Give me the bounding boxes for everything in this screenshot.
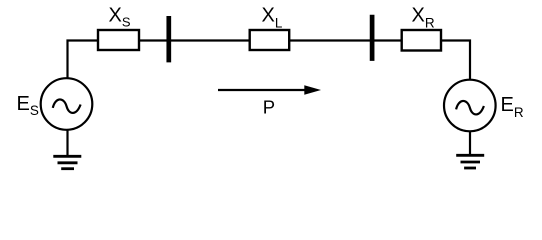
ground (E_S) bbox=[53, 156, 81, 168]
svg-text:P: P bbox=[263, 97, 275, 118]
wire from X_L right terminal across bus 2 to X_R left terminal bbox=[290, 39, 401, 41]
reactance X_S (box) bbox=[98, 30, 139, 50]
ground (E_R) bbox=[456, 155, 484, 168]
bus 1 (sending-end busbar) bbox=[166, 16, 171, 62]
AC source E_R (circle with sine) bbox=[444, 80, 496, 132]
reactance X_R (box) bbox=[402, 30, 441, 51]
wire from X_R right terminal to corner and down to E_R top bbox=[442, 41, 470, 80]
bus 2 (receiving-end busbar) bbox=[370, 15, 375, 61]
AC source E_S (circle with sine) bbox=[41, 78, 93, 130]
wire from X_S right terminal across bus 1 to X_L left terminal bbox=[140, 39, 249, 41]
reactance X_L (box) bbox=[250, 30, 290, 50]
arrow P (power flow) bbox=[218, 85, 321, 95]
wire from X_S left terminal to corner and down to E_S top bbox=[68, 41, 98, 79]
wire from E_R bottom to ground bbox=[469, 131, 471, 157]
wire from E_S bottom to ground bbox=[66, 130, 68, 156]
